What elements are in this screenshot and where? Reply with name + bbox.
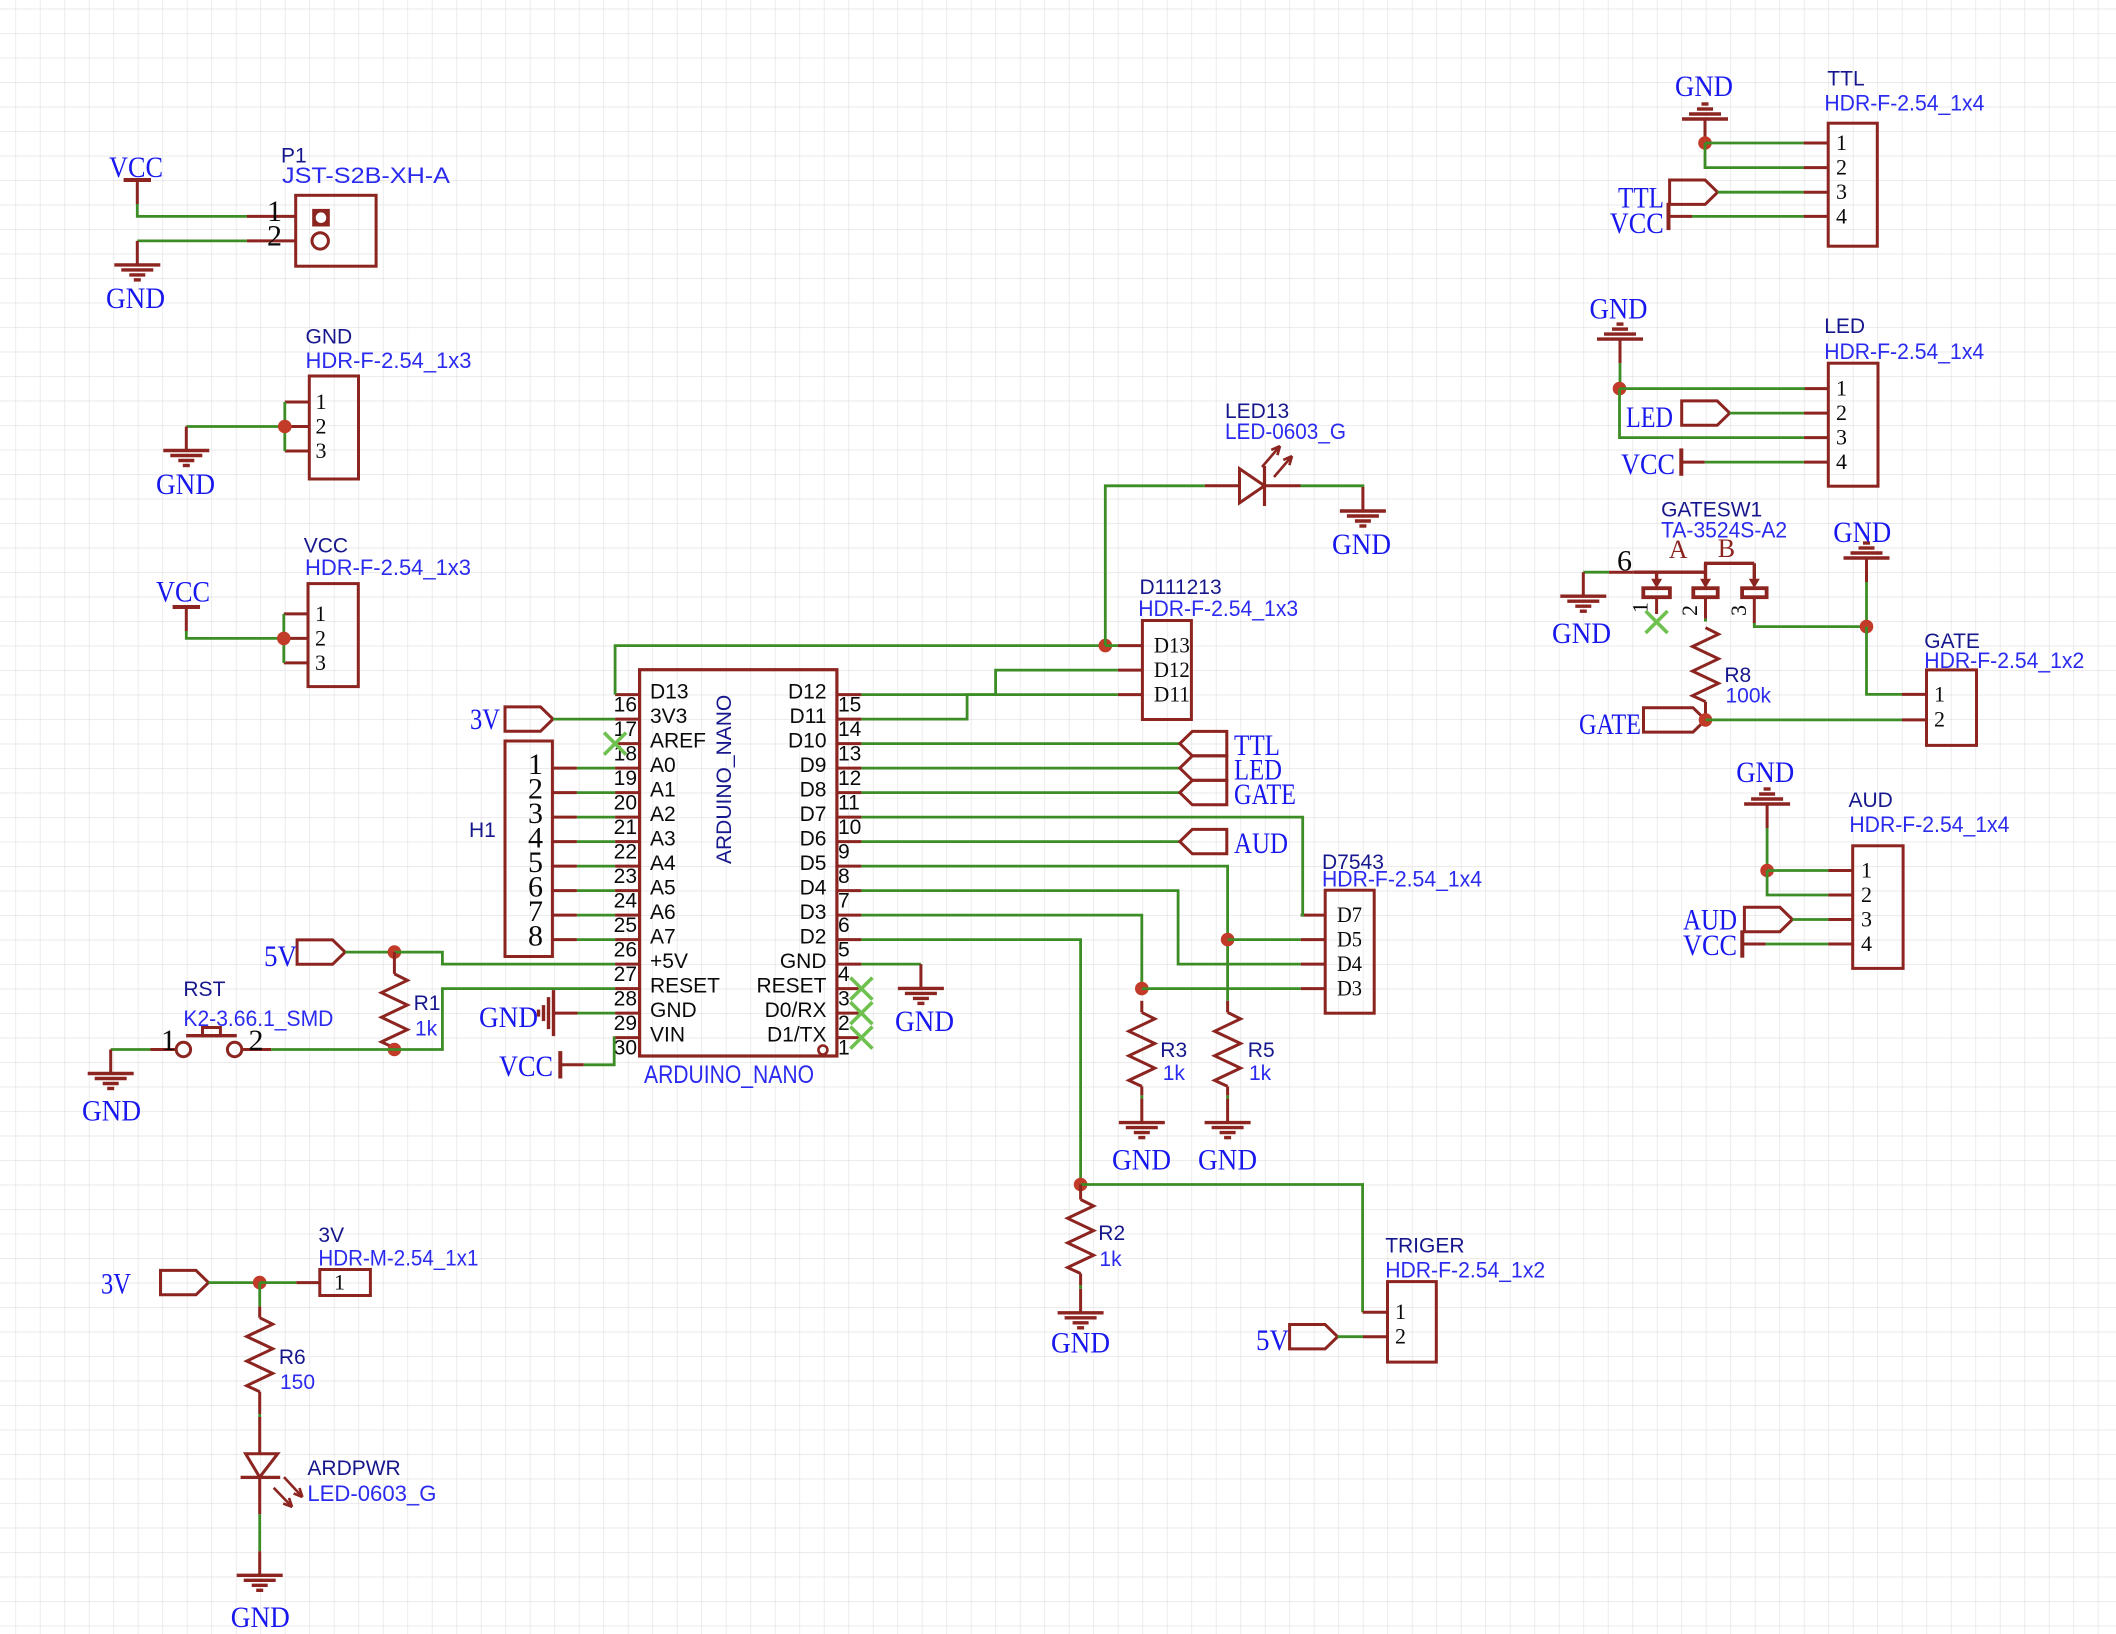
- power flag VCC (AUD): [1742, 943, 1766, 946]
- svg-text:3V3: 3V3: [650, 705, 687, 728]
- svg-text:3V: 3V: [318, 1224, 344, 1247]
- svg-text:16: 16: [614, 694, 637, 717]
- wire D13 from U1 pin16: [615, 646, 1105, 695]
- svg-text:3V: 3V: [101, 1268, 131, 1301]
- svg-text:GND: GND: [1051, 1326, 1110, 1359]
- wire GND to LED pin1: [1620, 387, 1805, 390]
- svg-text:RST: RST: [183, 978, 225, 1001]
- resistor R3 1k: [1140, 1001, 1143, 1013]
- wire GND to AUD pin1: [1767, 869, 1828, 872]
- wire GND to header: [186, 425, 284, 428]
- svg-text:D3: D3: [800, 901, 827, 924]
- wire TTL to pin3: [1718, 191, 1804, 194]
- svg-text:4: 4: [1836, 203, 1847, 228]
- svg-text:1: 1: [1395, 1299, 1406, 1324]
- ground (R3): [1140, 1099, 1143, 1123]
- svg-text:GND: GND: [231, 1601, 290, 1634]
- svg-text:2: 2: [315, 625, 326, 650]
- emission arrow 1: [1262, 446, 1280, 467]
- svg-text:11: 11: [838, 792, 860, 815]
- svg-text:2: 2: [316, 414, 327, 439]
- svg-text:LED: LED: [1824, 315, 1865, 338]
- svg-text:6: 6: [838, 914, 850, 937]
- pin 24 (A5) of U1: [615, 889, 640, 892]
- pin 18 (AREF) of U1: [615, 742, 640, 745]
- svg-text:100k: 100k: [1726, 685, 1772, 708]
- resistor R6 150: [258, 1307, 261, 1318]
- svg-text:R3: R3: [1160, 1039, 1187, 1062]
- pin3 stub: [1753, 597, 1756, 623]
- svg-text:R6: R6: [279, 1346, 306, 1369]
- led LED13 LED-0603_G: [1205, 484, 1240, 487]
- junction GATE/R8: [1699, 713, 1713, 727]
- junction LED GND: [1613, 382, 1627, 396]
- svg-text:HDR-M-2.54_1x1: HDR-M-2.54_1x1: [318, 1246, 478, 1271]
- power flag VCC (TTL): [1669, 215, 1693, 218]
- svg-text:A4: A4: [650, 852, 676, 875]
- pin 5 of H1: [552, 865, 577, 868]
- wire D5 to header: [1228, 938, 1301, 941]
- svg-text:D8: D8: [800, 779, 827, 802]
- header H1: [505, 741, 552, 957]
- ground (P1): [136, 241, 139, 265]
- svg-text:D11: D11: [1154, 682, 1190, 707]
- svg-text:1: 1: [1934, 681, 1945, 706]
- pin 21 (A2) of U1: [615, 816, 640, 819]
- svg-text:HDR-F-2.54_1x3: HDR-F-2.54_1x3: [305, 555, 471, 580]
- switch RST K2-3.66.1_SMD: [176, 1042, 190, 1056]
- svg-text:RESET: RESET: [650, 975, 720, 998]
- pin 17 (3V3) of U1: [615, 718, 640, 721]
- svg-text:5V: 5V: [1256, 1324, 1289, 1357]
- pin2 stub: [1704, 597, 1707, 618]
- svg-text:8: 8: [838, 865, 850, 888]
- net port GATE: [1644, 708, 1706, 732]
- header TTL HDR-F-2.54_1x4: [1828, 123, 1877, 246]
- svg-text:VCC: VCC: [499, 1050, 553, 1083]
- pin 30 (VIN) of U1: [615, 1036, 640, 1039]
- svg-text:D5: D5: [1337, 927, 1362, 952]
- wire D13 to header: [1105, 644, 1118, 647]
- svg-text:23: 23: [614, 865, 637, 888]
- pin 9 (D6) of U1: [837, 840, 862, 843]
- pin 6 of H1: [552, 889, 577, 892]
- svg-text:1: 1: [1861, 858, 1872, 883]
- svg-text:GND: GND: [1198, 1144, 1257, 1177]
- pin 29 (GND) of U1: [615, 1012, 640, 1015]
- svg-text:A1: A1: [650, 779, 676, 802]
- svg-text:3: 3: [838, 988, 850, 1011]
- junction TTL GND: [1698, 136, 1712, 150]
- svg-text:14: 14: [838, 718, 862, 741]
- ground (U1 GND pin29): [554, 1012, 578, 1015]
- svg-text:1k: 1k: [1099, 1248, 1122, 1271]
- resistor R8 100k: [1693, 628, 1719, 702]
- svg-text:ARDUINO_NANO: ARDUINO_NANO: [713, 695, 736, 864]
- junction D2/R2: [1074, 1178, 1088, 1192]
- svg-text:D7: D7: [1337, 902, 1362, 927]
- wire AUD to pin3: [1792, 918, 1828, 921]
- net port 5V: [297, 940, 345, 964]
- wire gnd stem: [1619, 363, 1622, 389]
- svg-text:2: 2: [1836, 400, 1847, 425]
- svg-text:27: 27: [614, 963, 637, 986]
- svg-text:8: 8: [528, 920, 543, 953]
- svg-text:LED-0603_G: LED-0603_G: [1225, 419, 1346, 444]
- wire H1.5 to U1 A4: [577, 865, 615, 868]
- pin 8 (D5) of U1: [837, 865, 862, 868]
- junction 5V/R1: [388, 945, 402, 959]
- wire D13 up to LED13: [1105, 486, 1205, 646]
- header GATE HDR-F-2.54_1x2: [1927, 670, 1977, 746]
- svg-text:A0: A0: [650, 754, 676, 777]
- svg-text:26: 26: [614, 939, 637, 962]
- svg-text:1k: 1k: [1249, 1062, 1272, 1085]
- svg-text:2: 2: [1861, 882, 1872, 907]
- pin 14 (D11) of U1: [837, 718, 862, 721]
- svg-text:5: 5: [838, 939, 850, 962]
- pin 23 (A4) of U1: [615, 865, 640, 868]
- wire RESET to U1 pin28: [394, 989, 615, 1050]
- svg-text:D2: D2: [800, 926, 827, 949]
- svg-text:22: 22: [614, 841, 637, 864]
- wire H1.6 to U1 A5: [577, 889, 615, 892]
- svg-text:4: 4: [1836, 449, 1847, 474]
- wire GATE to pin2: [1706, 719, 1903, 722]
- ground (GATE header): [1865, 558, 1868, 582]
- wire VCC to LED pin4: [1705, 461, 1804, 464]
- power flag VCC: [185, 607, 188, 631]
- wire H1.8 to U1 A7: [577, 938, 615, 941]
- junction R1/RST/RESET: [388, 1043, 402, 1057]
- svg-text:VIN: VIN: [650, 1024, 685, 1047]
- svg-text:2: 2: [267, 220, 282, 253]
- wire H1.1 to U1 A0: [577, 767, 615, 770]
- pin 6 (D3) of U1: [837, 914, 862, 917]
- svg-text:VCC: VCC: [1683, 929, 1737, 962]
- svg-text:2: 2: [838, 1012, 850, 1035]
- wire U1 pin4 GND: [861, 963, 921, 966]
- led ARDPWR LED-0603_G: [258, 1417, 261, 1454]
- junction D13: [1099, 639, 1113, 653]
- power flag VCC (VIN): [560, 1063, 584, 1066]
- wire D3 to header: [1142, 987, 1301, 990]
- svg-text:3: 3: [1836, 425, 1847, 450]
- svg-text:1: 1: [1836, 376, 1847, 401]
- svg-text:D9: D9: [800, 754, 827, 777]
- svg-text:150: 150: [280, 1371, 315, 1394]
- wire 5V to junction: [345, 951, 394, 954]
- svg-text:17: 17: [614, 718, 637, 741]
- svg-text:2: 2: [1677, 605, 1702, 616]
- actuator arrow pole1: [1655, 572, 1658, 580]
- svg-text:HDR-F-2.54_1x3: HDR-F-2.54_1x3: [306, 348, 472, 373]
- ground (GATESW1 pin6): [1582, 572, 1585, 596]
- wire GND to GATE pin1: [1867, 627, 1903, 695]
- wire GND to U1 pin29: [578, 1012, 616, 1015]
- svg-text:HDR-F-2.54_1x4: HDR-F-2.54_1x4: [1824, 339, 1984, 364]
- pin 3 (RESET) of U1: [837, 987, 862, 990]
- pin 1 (D1/TX) of U1: [837, 1036, 862, 1039]
- svg-text:GND: GND: [1332, 528, 1391, 561]
- pad pin2: [1693, 588, 1717, 597]
- mcu U1 ARDUINO_NANO body: [640, 670, 837, 1056]
- svg-text:21: 21: [614, 816, 637, 839]
- ground (ARDPWR): [258, 1551, 261, 1575]
- actuator arrow pole3: [1753, 563, 1756, 580]
- header D111213 HDR-F-2.54_1x3: [1142, 621, 1191, 720]
- svg-text:GND: GND: [106, 282, 165, 315]
- wire LED to pin2: [1730, 412, 1804, 415]
- svg-text:1: 1: [1628, 602, 1653, 613]
- ground (R2): [1079, 1289, 1082, 1313]
- wire 5V to U1 +5V pin27: [394, 952, 615, 964]
- net port AUD: [1744, 907, 1792, 931]
- svg-text:A6: A6: [650, 901, 676, 924]
- wire D8 to GATE port: [861, 791, 1179, 794]
- svg-text:GND: GND: [1590, 293, 1648, 326]
- svg-text:VCC: VCC: [156, 576, 210, 609]
- ground (TTL): [1704, 119, 1707, 143]
- wire VCC to AUD pin4: [1766, 943, 1828, 946]
- wire GND to AUD pin2: [1767, 871, 1828, 896]
- svg-text:2: 2: [1934, 706, 1945, 731]
- svg-text:A3: A3: [650, 828, 676, 851]
- svg-text:LED: LED: [1626, 401, 1673, 434]
- wire GND to TTL pin2: [1705, 143, 1804, 168]
- pin 1 of H1: [552, 767, 577, 770]
- svg-text:1k: 1k: [1163, 1062, 1186, 1085]
- wire H1.4 to U1 A3: [577, 840, 615, 843]
- svg-text:AUD: AUD: [1234, 827, 1288, 860]
- svg-text:ARDPWR: ARDPWR: [307, 1457, 400, 1480]
- resistor R5 1k: [1226, 1001, 1229, 1013]
- svg-text:GND: GND: [306, 326, 353, 349]
- pin 4 (GND) of U1: [837, 963, 862, 966]
- svg-text:4: 4: [1861, 931, 1872, 956]
- pad pin3: [1742, 588, 1767, 597]
- wire RST pin2 to RESET net: [271, 1048, 394, 1051]
- svg-text:HDR-F-2.54_1x4: HDR-F-2.54_1x4: [1322, 867, 1482, 892]
- pad pin1: [1643, 588, 1670, 597]
- pin 16 (D13) of U1: [615, 693, 640, 696]
- wire gnd down: [1865, 582, 1868, 627]
- pin 27 (+5V) of U1: [615, 963, 640, 966]
- wire LED13 cathode to GND: [1301, 486, 1363, 488]
- no-connect D1/TX: [850, 1027, 872, 1049]
- pin 15 (D12) of U1: [837, 693, 862, 696]
- svg-text:VCC: VCC: [109, 151, 163, 184]
- header VCC HDR-F-2.54_1x3: [308, 584, 358, 687]
- header GND HDR-F-2.54_1x3: [309, 376, 358, 479]
- junction GATE GND: [1860, 620, 1874, 634]
- ground (GND header): [185, 427, 188, 451]
- svg-text:13: 13: [838, 743, 861, 766]
- svg-text:D0/RX: D0/RX: [765, 999, 827, 1022]
- net port TTL: [1180, 731, 1227, 755]
- wire H1.3 to U1 A2: [577, 816, 615, 819]
- pin 8 of H1: [552, 938, 577, 941]
- svg-text:1k: 1k: [415, 1018, 438, 1041]
- wire 3V down to R6: [258, 1283, 261, 1307]
- header LED HDR-F-2.54_1x4: [1828, 363, 1878, 486]
- svg-text:1: 1: [838, 1037, 850, 1060]
- wire GND to P1 pin2: [137, 239, 247, 242]
- svg-text:B: B: [1718, 534, 1735, 563]
- pin 7 (D4) of U1: [837, 889, 862, 892]
- svg-text:1: 1: [161, 1024, 176, 1057]
- svg-text:AREF: AREF: [650, 730, 706, 753]
- no-connect GATESW1 pin1: [1646, 611, 1668, 633]
- pin 19 (A0) of U1: [615, 767, 640, 770]
- svg-text:D6: D6: [800, 828, 827, 851]
- connector P1 JST-S2B-XH-A: [247, 215, 296, 218]
- wire D5 down: [861, 866, 1227, 1001]
- svg-text:HDR-F-2.54_1x3: HDR-F-2.54_1x3: [1138, 596, 1298, 621]
- wire pin6 to GND: [1583, 571, 1609, 574]
- power flag VCC: [136, 180, 139, 204]
- pin 2 (D0/RX) of U1: [837, 1012, 862, 1015]
- svg-text:JST-S2B-XH-A: JST-S2B-XH-A: [282, 163, 450, 188]
- net port 3V: [161, 1270, 209, 1294]
- emission arrow 1: [284, 1477, 302, 1497]
- wire GND to TTL pin1: [1705, 142, 1804, 145]
- svg-text:1: 1: [315, 601, 326, 626]
- wire D4: [861, 891, 1300, 965]
- svg-text:H1: H1: [469, 819, 496, 842]
- svg-text:+5V: +5V: [650, 950, 688, 973]
- pin 10 (D7) of U1: [837, 816, 862, 819]
- svg-text:TTL: TTL: [1827, 68, 1864, 91]
- svg-text:1: 1: [316, 389, 327, 414]
- pin 2 of H1: [552, 791, 577, 794]
- net port LED: [1682, 401, 1730, 425]
- svg-text:D12: D12: [1154, 657, 1190, 682]
- wire GND to LED pin3: [1620, 389, 1804, 438]
- wire D6 to AUD port: [861, 840, 1179, 843]
- pin6 line: [1609, 571, 1633, 574]
- pin 26 (A7) of U1: [615, 938, 640, 941]
- svg-text:3V: 3V: [470, 703, 500, 736]
- wire D3 down: [861, 915, 1141, 989]
- junction GND header: [278, 420, 292, 434]
- svg-text:K2-3.66.1_SMD: K2-3.66.1_SMD: [183, 1006, 333, 1031]
- wire 3V to junction: [209, 1281, 260, 1284]
- net port 5V: [1290, 1325, 1338, 1349]
- svg-text:D10: D10: [788, 730, 827, 753]
- svg-text:D1/TX: D1/TX: [767, 1024, 827, 1047]
- svg-text:12: 12: [838, 767, 861, 790]
- wire VCC to P1 pin1: [137, 204, 247, 216]
- svg-text:3: 3: [1861, 907, 1872, 932]
- wire H1.7 to U1 A6: [577, 914, 615, 917]
- no-connect RESET: [850, 978, 872, 1000]
- svg-text:19: 19: [614, 767, 637, 790]
- svg-text:GATE: GATE: [1234, 778, 1296, 811]
- svg-text:AUD: AUD: [1849, 789, 1893, 812]
- power flag VCC (LED): [1681, 461, 1705, 464]
- header AUD HDR-F-2.54_1x4: [1853, 846, 1903, 969]
- svg-text:A2: A2: [650, 803, 676, 826]
- svg-text:15: 15: [838, 694, 861, 717]
- ground (LED): [1619, 339, 1622, 363]
- svg-text:HDR-F-2.54_1x4: HDR-F-2.54_1x4: [1849, 812, 2009, 837]
- wire D2 down to R2: [861, 940, 1080, 1185]
- pin 20 (A1) of U1: [615, 791, 640, 794]
- svg-text:D12: D12: [788, 681, 827, 704]
- svg-text:D11: D11: [790, 705, 827, 728]
- svg-text:R2: R2: [1098, 1222, 1125, 1245]
- wire D9 to LED port: [861, 767, 1179, 770]
- svg-text:HDR-F-2.54_1x2: HDR-F-2.54_1x2: [1924, 648, 2084, 673]
- svg-text:2: 2: [1836, 155, 1847, 180]
- svg-text:D4: D4: [800, 877, 827, 900]
- svg-text:5V: 5V: [264, 940, 297, 973]
- svg-text:RESET: RESET: [756, 975, 826, 998]
- wire GND header pins: [283, 402, 286, 451]
- pin 11 (D8) of U1: [837, 791, 862, 794]
- wire pin3 to GND net: [1754, 623, 1866, 627]
- net port AUD: [1180, 829, 1227, 853]
- pin 22 (A3) of U1: [615, 840, 640, 843]
- ground (LED13): [1361, 487, 1364, 511]
- svg-text:D7: D7: [800, 803, 827, 826]
- svg-text:A: A: [1669, 535, 1688, 564]
- ground (U1 pin4): [919, 964, 922, 988]
- svg-text:3: 3: [1836, 179, 1847, 204]
- wire VCC to TTL pin4: [1692, 215, 1804, 218]
- wire D7: [861, 817, 1302, 915]
- junction 3V/R6: [253, 1276, 267, 1290]
- wire VCC to U1 pin30 VIN: [584, 1038, 615, 1065]
- resistor R2 1k: [1079, 1185, 1082, 1200]
- net port TTL: [1670, 180, 1718, 204]
- wire VCC to header: [186, 631, 283, 638]
- header D7543 HDR-F-2.54_1x4: [1325, 890, 1374, 1013]
- wire LED to GND: [258, 1514, 261, 1551]
- svg-text:30: 30: [614, 1037, 637, 1060]
- svg-text:LED-0603_G: LED-0603_G: [307, 1481, 436, 1506]
- svg-text:GND: GND: [1112, 1144, 1171, 1177]
- wire gnd down: [1766, 828, 1769, 871]
- svg-text:ARDUINO_NANO: ARDUINO_NANO: [644, 1061, 814, 1089]
- svg-text:A7: A7: [650, 926, 676, 949]
- pin1 stub: [1655, 597, 1658, 614]
- wire VCC header pins: [282, 614, 285, 663]
- svg-text:9: 9: [838, 841, 850, 864]
- junction AUD GND: [1760, 864, 1774, 878]
- svg-text:1: 1: [334, 1270, 345, 1295]
- svg-text:D3: D3: [1337, 976, 1362, 1001]
- actuator arrow pole2: [1704, 563, 1707, 580]
- svg-text:D4: D4: [1337, 951, 1362, 976]
- pin 7 of H1: [552, 914, 577, 917]
- wire 5V to TRIGER pin2: [1338, 1335, 1363, 1338]
- svg-text:25: 25: [614, 914, 637, 937]
- pin 12 (D9) of U1: [837, 767, 862, 770]
- svg-text:HDR-F-2.54_1x4: HDR-F-2.54_1x4: [1824, 91, 1984, 116]
- svg-text:D13: D13: [650, 681, 689, 704]
- svg-text:3: 3: [315, 650, 326, 675]
- svg-text:7: 7: [838, 890, 850, 913]
- svg-text:D5: D5: [800, 852, 827, 875]
- svg-text:VCC: VCC: [1610, 207, 1664, 240]
- svg-text:4: 4: [838, 963, 850, 986]
- svg-text:10: 10: [838, 816, 861, 839]
- svg-text:R5: R5: [1248, 1039, 1275, 1062]
- svg-text:3: 3: [316, 438, 327, 463]
- wire 3V to U1 pin17: [553, 718, 615, 721]
